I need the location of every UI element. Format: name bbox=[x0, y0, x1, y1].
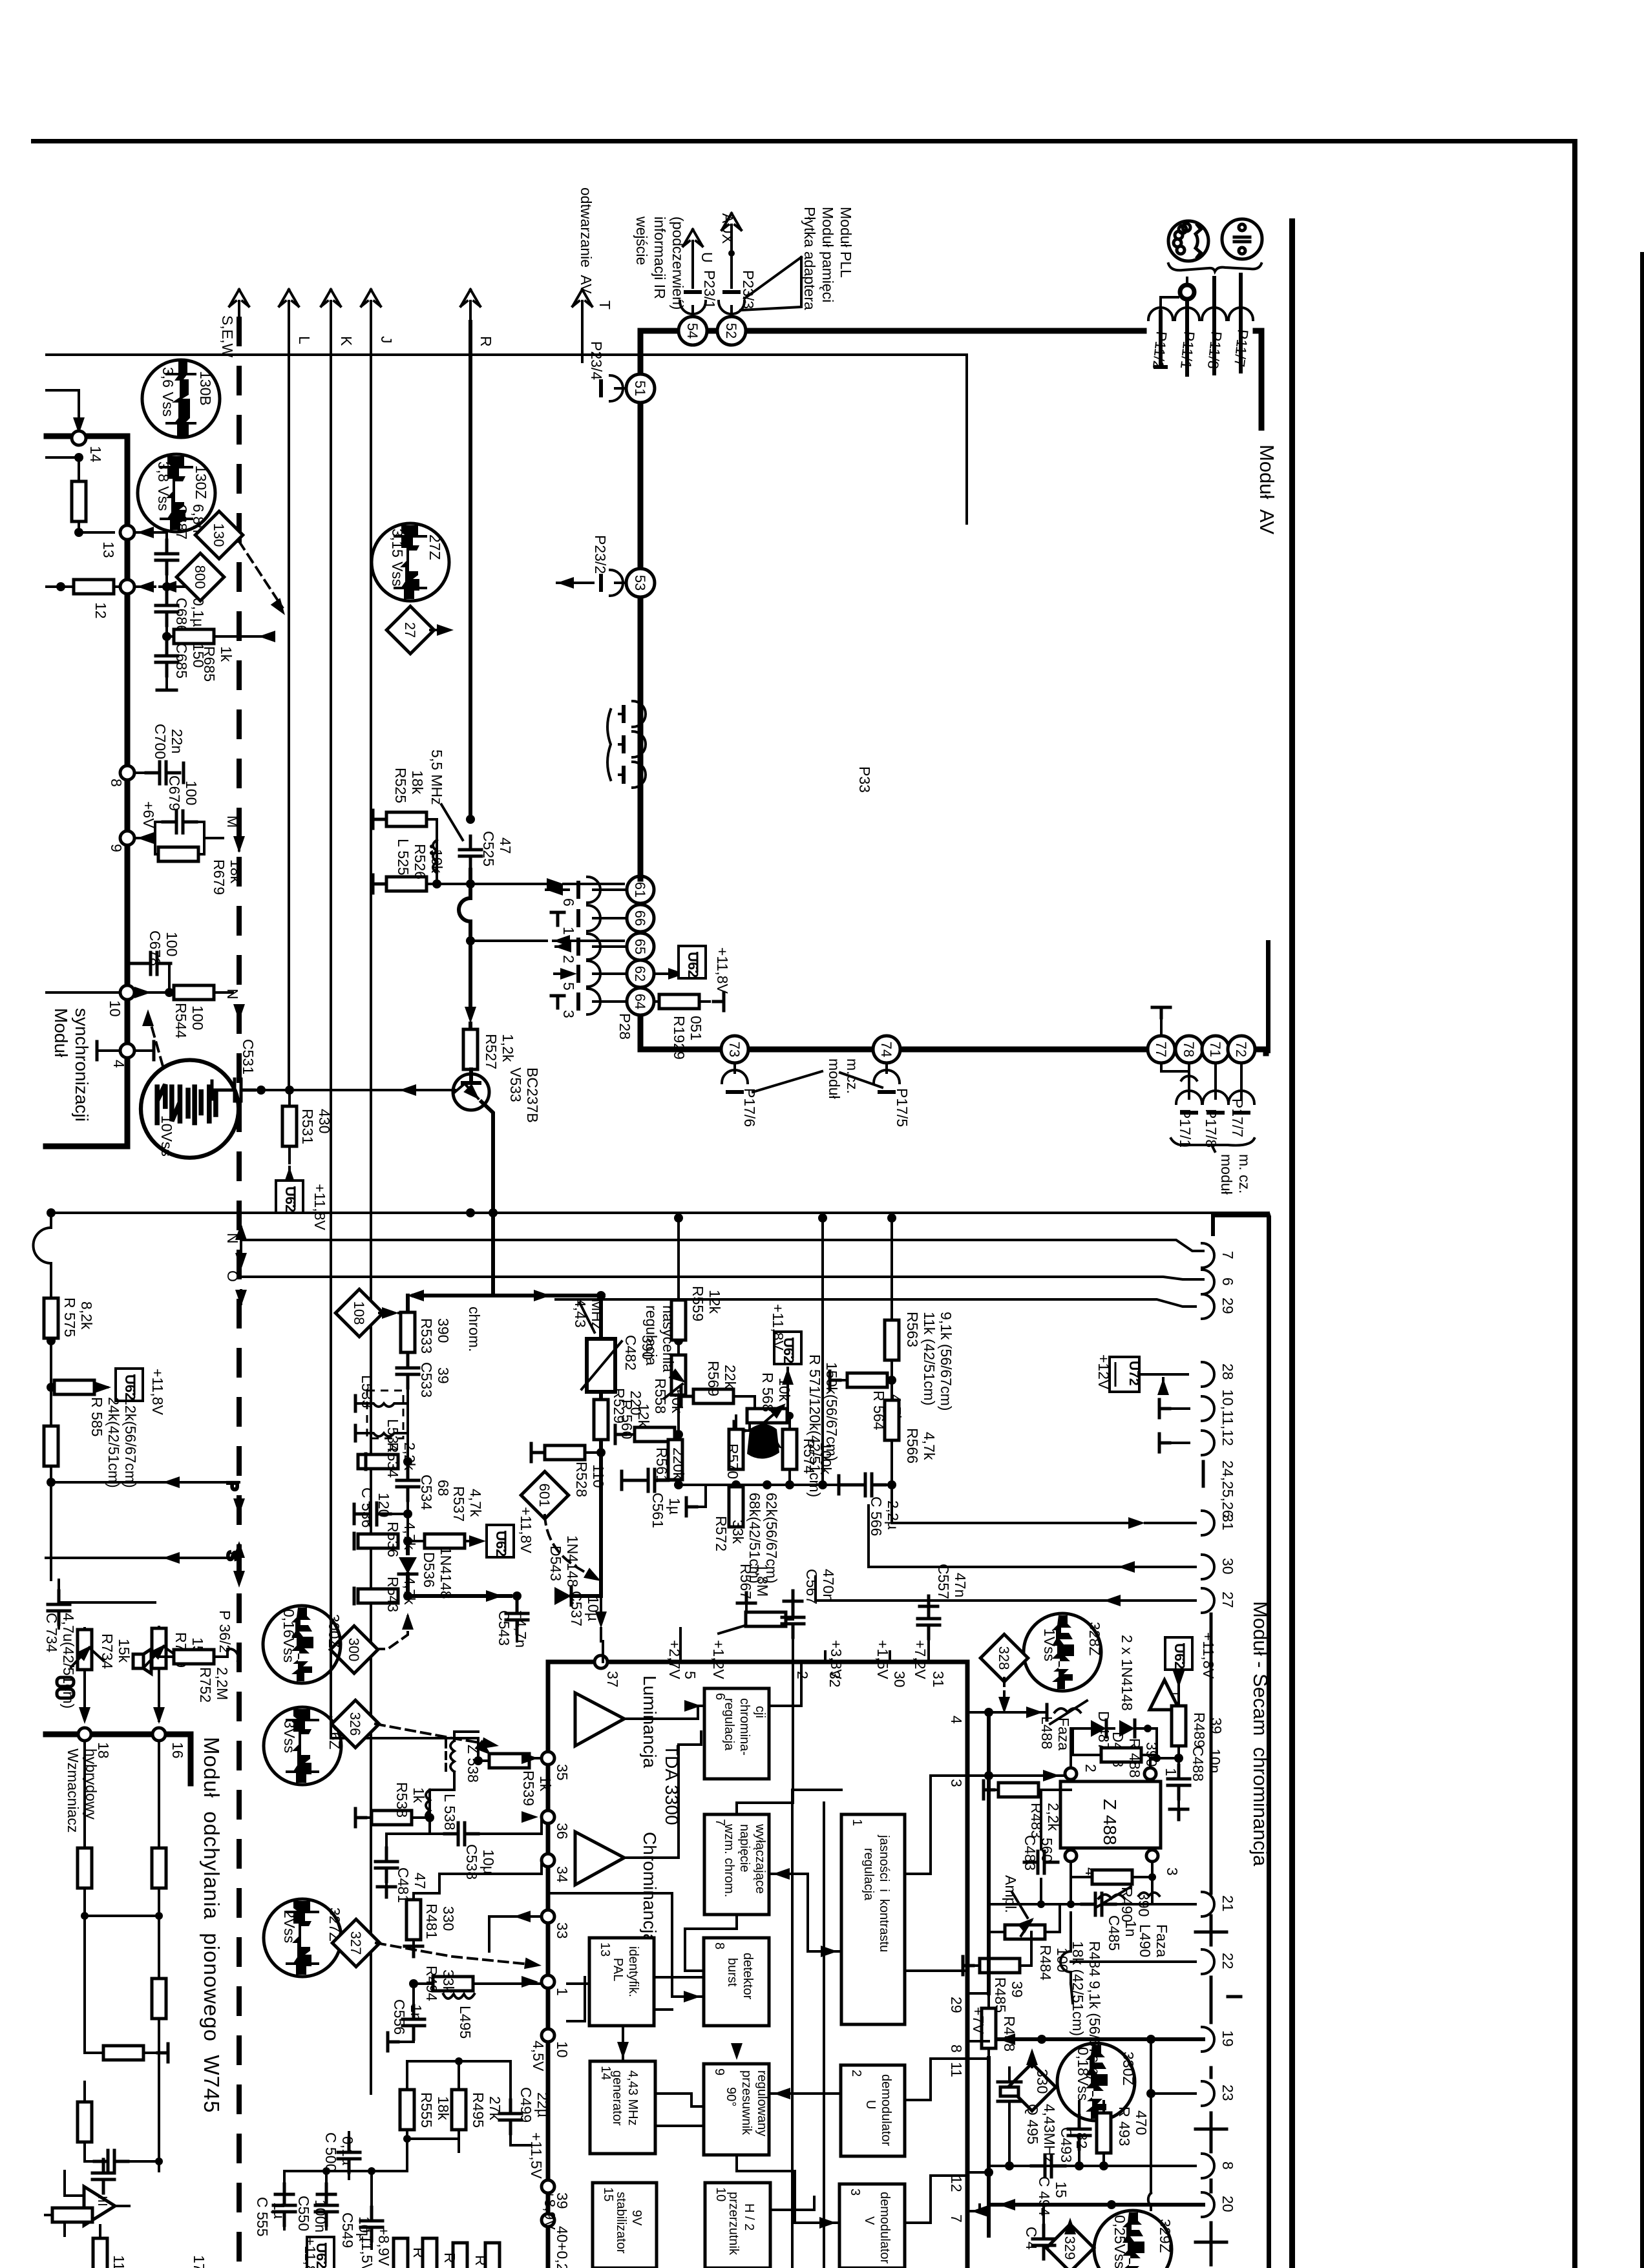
diamond 329 bbox=[1046, 2218, 1094, 2268]
secam edge dashes bbox=[1196, 1932, 1241, 2242]
svg-text:R543: R543 bbox=[385, 1577, 401, 1612]
resistor R488 bbox=[1073, 1728, 1174, 1778]
connector 27 bbox=[1202, 1588, 1236, 1613]
svg-text:Z 538: Z 538 bbox=[465, 1745, 481, 1783]
connector 21 bbox=[1202, 1892, 1236, 1916]
svg-text:L: L bbox=[296, 336, 313, 344]
capacitor C686 bbox=[156, 587, 207, 641]
node 52 bbox=[717, 317, 746, 345]
svg-text:12k: 12k bbox=[706, 1290, 723, 1314]
svg-text:przesuwnik: przesuwnik bbox=[739, 2070, 753, 2136]
svg-text:regulacja: regulacja bbox=[861, 1848, 876, 1901]
oscillogram 300Z bbox=[263, 1606, 342, 1683]
svg-text:C493: C493 bbox=[1058, 2127, 1075, 2163]
svg-text:430: 430 bbox=[316, 1109, 333, 1133]
svg-text:330Z: 330Z bbox=[1120, 2052, 1137, 2085]
svg-text:220k: 220k bbox=[670, 1447, 687, 1480]
svg-text:+1,2V: +1,2V bbox=[710, 1640, 727, 1679]
svg-text:0,1µ: 0,1µ bbox=[190, 598, 207, 627]
oscillogram 327Z bbox=[264, 1899, 343, 1977]
svg-text:27k: 27k bbox=[487, 2096, 503, 2121]
svg-text:identyfik.: identyfik. bbox=[626, 1946, 640, 1997]
svg-text:17: 17 bbox=[191, 2255, 207, 2268]
chip internal wires bbox=[548, 1641, 967, 2268]
wire P line bbox=[51, 1476, 245, 1515]
svg-text:T: T bbox=[596, 300, 613, 310]
svg-text:C549: C549 bbox=[339, 2212, 356, 2248]
junction wire to 66 bbox=[466, 935, 624, 947]
svg-text:Q 495: Q 495 bbox=[1024, 2104, 1041, 2145]
connector 8b bbox=[1202, 2154, 1236, 2178]
diamond 108 bbox=[335, 1289, 408, 1337]
svg-text:12: 12 bbox=[948, 2176, 965, 2192]
svg-text:27: 27 bbox=[1219, 1591, 1236, 1608]
capacitor C687 bbox=[156, 504, 207, 591]
arrow L bbox=[279, 289, 313, 1090]
connector 28 U72 bbox=[1095, 1354, 1236, 1395]
node 51 bbox=[626, 374, 655, 403]
svg-text:800: 800 bbox=[192, 565, 208, 589]
svg-text:15: 15 bbox=[1053, 2181, 1070, 2198]
svg-text:130Z: 130Z bbox=[193, 465, 209, 499]
svg-text:22n: 22n bbox=[169, 729, 185, 753]
wire thick down C482 bbox=[599, 1296, 603, 1596]
resistor R490 bbox=[1071, 1862, 1156, 1922]
svg-text:+7V: +7V bbox=[970, 2007, 987, 2034]
svg-text:77: 77 bbox=[1153, 1042, 1169, 1057]
oscillogram 329Z bbox=[1094, 2210, 1174, 2268]
svg-text:+7,2V: +7,2V bbox=[912, 1640, 929, 1679]
diode D488 bbox=[1110, 1720, 1157, 1767]
node 72 bbox=[1228, 1036, 1255, 1063]
svg-text:16: 16 bbox=[169, 1742, 186, 1759]
svg-text:C: C bbox=[359, 1487, 375, 1498]
svg-text:jasności i kontrastu: jasności i kontrastu bbox=[877, 1834, 891, 1952]
svg-text:7: 7 bbox=[1219, 1251, 1236, 1259]
svg-text:R: R bbox=[478, 336, 494, 347]
svg-text:R569: R569 bbox=[705, 1361, 722, 1396]
node 54 bbox=[679, 317, 707, 345]
svg-text:R572: R572 bbox=[713, 1516, 730, 1551]
svg-text:0,25Vss: 0,25Vss bbox=[1112, 2215, 1128, 2268]
node 4 bbox=[97, 1042, 154, 1068]
chip pin29 wire bbox=[967, 1992, 989, 1995]
svg-text:110: 110 bbox=[590, 1464, 607, 1488]
capacitor C550 bbox=[295, 2184, 337, 2232]
svg-text:20: 20 bbox=[1219, 2196, 1236, 2212]
svg-text:+1,5V: +1,5V bbox=[874, 1640, 891, 1679]
svg-text:1Vss: 1Vss bbox=[1041, 1628, 1058, 1661]
node 62 bbox=[627, 960, 654, 987]
svg-text:N: N bbox=[224, 1233, 241, 1244]
svg-text:330: 330 bbox=[1034, 2069, 1051, 2094]
svg-text:R526: R526 bbox=[412, 844, 428, 879]
svg-text:74: 74 bbox=[878, 1042, 894, 1057]
svg-text:47: 47 bbox=[412, 1873, 428, 1889]
capacitor C567 bbox=[782, 1569, 837, 1652]
svg-text:68k(42/51cm): 68k(42/51cm) bbox=[746, 1493, 763, 1584]
svg-text:P17/6: P17/6 bbox=[741, 1088, 758, 1127]
svg-text:wzm. chrom.: wzm. chrom. bbox=[722, 1823, 736, 1897]
svg-text:C 4: C 4 bbox=[1023, 2227, 1040, 2250]
svg-text:R495: R495 bbox=[470, 2092, 487, 2128]
svg-text:3,6 Vss: 3,6 Vss bbox=[160, 367, 176, 417]
svg-text:3Vss: 3Vss bbox=[281, 1720, 298, 1753]
wire hop 22 bbox=[1060, 1913, 1196, 2003]
svg-text:R 560: R 560 bbox=[618, 1400, 635, 1439]
svg-text:+11,5V: +11,5V bbox=[528, 2132, 545, 2179]
svg-text:51: 51 bbox=[632, 381, 648, 396]
svg-text:R528: R528 bbox=[573, 1462, 590, 1497]
resistor R555 bbox=[400, 2079, 452, 2139]
svg-text:AUX: AUX bbox=[719, 213, 736, 244]
svg-text:R531: R531 bbox=[299, 1109, 316, 1144]
svg-text:D536: D536 bbox=[421, 1552, 437, 1588]
svg-text:U: U bbox=[863, 2100, 878, 2109]
svg-text:R527: R527 bbox=[483, 1034, 500, 1069]
svg-text:C543: C543 bbox=[496, 1610, 512, 1646]
svg-text:C499: C499 bbox=[518, 2087, 534, 2123]
svg-text:regulacja: regulacja bbox=[643, 1305, 660, 1366]
svg-text:1: 1 bbox=[850, 1819, 864, 1826]
resistor R752 bbox=[159, 1650, 231, 1703]
svg-text:5: 5 bbox=[560, 982, 577, 991]
svg-text:L 538: L 538 bbox=[441, 1794, 458, 1831]
arrow M on divider bbox=[224, 815, 245, 853]
svg-text:R 585: R 585 bbox=[89, 1397, 105, 1436]
resistor ladder3 bbox=[152, 1979, 166, 2019]
coil L525 bbox=[395, 839, 437, 876]
svg-text:12k(56/67cm): 12k(56/67cm) bbox=[122, 1397, 139, 1488]
svg-text:R538: R538 bbox=[394, 1782, 410, 1818]
svg-text:R: R bbox=[441, 2252, 458, 2263]
svg-text:+11,8V: +11,8V bbox=[1200, 1632, 1217, 1679]
svg-text:2,2k: 2,2k bbox=[401, 1442, 418, 1471]
svg-text:U72: U72 bbox=[1126, 1361, 1141, 1386]
chip pin 8 11 wires bbox=[967, 2041, 989, 2059]
connector 30 bbox=[1202, 1555, 1236, 1579]
wire to 61 bbox=[470, 878, 624, 890]
crystal Q495 bbox=[998, 2068, 1058, 2166]
wire 30 line bbox=[869, 1506, 1196, 1573]
svg-text:R484: R484 bbox=[1037, 1945, 1054, 1980]
DIN socket 5pin bbox=[1168, 221, 1208, 261]
U62 box cluster bbox=[770, 1304, 801, 1416]
svg-text:C700: C700 bbox=[152, 724, 169, 759]
svg-text:R539: R539 bbox=[520, 1770, 537, 1806]
wire 31 line bbox=[892, 1485, 1196, 1529]
potentiometer R729 bbox=[145, 1627, 206, 1721]
node 74 bbox=[873, 1036, 900, 1063]
svg-text:5: 5 bbox=[682, 1671, 699, 1679]
svg-text:R498: R498 bbox=[1001, 2016, 1018, 2052]
svg-text:10n: 10n bbox=[1207, 1748, 1223, 1773]
svg-text:30: 30 bbox=[1219, 1558, 1236, 1575]
node 65 bbox=[627, 933, 654, 960]
svg-text:L533: L533 bbox=[359, 1375, 375, 1408]
svg-text:470n: 470n bbox=[820, 1569, 837, 1602]
svg-text:66: 66 bbox=[632, 910, 648, 926]
svg-text:4,7k: 4,7k bbox=[401, 1577, 418, 1605]
diamond 326 bbox=[332, 1700, 500, 1752]
block 1 regulacja jasnosci bbox=[841, 1814, 905, 2024]
svg-text:Chrominancja: Chrominancja bbox=[640, 1832, 660, 1944]
svg-text:31: 31 bbox=[1219, 1514, 1236, 1531]
svg-text:P33: P33 bbox=[856, 766, 873, 793]
svg-text:73: 73 bbox=[726, 1042, 743, 1057]
opamp III bbox=[65, 2171, 129, 2236]
svg-text:4,5V: 4,5V bbox=[530, 2041, 547, 2072]
connector 10,11,12 bbox=[1159, 1389, 1236, 1446]
svg-text:33k: 33k bbox=[730, 1520, 746, 1544]
svg-text:10Vss: 10Vss bbox=[158, 1115, 175, 1157]
svg-text:+11,8V: +11,8V bbox=[714, 947, 731, 994]
module boundary stub bbox=[1266, 940, 1270, 1053]
svg-text:C537: C537 bbox=[568, 1591, 585, 1626]
resistor R567 bbox=[737, 1564, 793, 1626]
svg-text:K: K bbox=[338, 336, 355, 346]
resistor ladder5 bbox=[78, 2102, 92, 2142]
svg-text:+8,9V: +8,9V bbox=[542, 2190, 558, 2230]
amplifier triangle chrominancja bbox=[575, 1832, 624, 1885]
block 7 wzm chrom bbox=[704, 1814, 769, 1915]
svg-text:21: 21 bbox=[1219, 1895, 1236, 1912]
svg-text:10: 10 bbox=[107, 1000, 123, 1017]
plug P23/2 bbox=[557, 535, 626, 596]
page frame top bbox=[31, 139, 1577, 143]
svg-text:10,11,12: 10,11,12 bbox=[1219, 1389, 1236, 1446]
svg-text:64: 64 bbox=[632, 994, 648, 1009]
plug P36/2 bbox=[216, 1610, 238, 1661]
svg-text:8,2k: 8,2k bbox=[78, 1301, 95, 1330]
svg-text:Moduł - Secam chrominancja: Moduł - Secam chrominancja bbox=[1249, 1601, 1272, 1867]
resistor R536 bbox=[354, 1514, 418, 1557]
connector 7 bbox=[1202, 1243, 1236, 1268]
wire pin4 row bbox=[989, 1862, 1196, 1908]
svg-text:62: 62 bbox=[632, 966, 648, 982]
svg-text:1: 1 bbox=[560, 927, 577, 935]
svg-text:22: 22 bbox=[1219, 1953, 1236, 1969]
svg-text:V: V bbox=[862, 2216, 876, 2225]
svg-text:generator: generator bbox=[610, 2070, 624, 2126]
svg-text:S,E,W: S,E,W bbox=[219, 315, 236, 357]
oscillogram 130B bbox=[142, 360, 220, 437]
svg-text:10k: 10k bbox=[428, 849, 445, 874]
diamond 130 bbox=[195, 511, 243, 559]
capacitor C492 bbox=[1023, 2205, 1055, 2259]
resistor R563 bbox=[885, 1213, 954, 1411]
capacitor C536 bbox=[354, 1487, 408, 1528]
plugs P17/1 P17/8 P17/7 bbox=[1161, 1063, 1254, 1195]
svg-text:C550: C550 bbox=[295, 2196, 312, 2231]
oscillogram 326Z bbox=[264, 1707, 343, 1785]
capacitor C499 bbox=[500, 2087, 551, 2145]
arrow N on divider bbox=[224, 989, 245, 1021]
diamond 27 bbox=[386, 606, 454, 654]
svg-text:39: 39 bbox=[1009, 1981, 1026, 1998]
svg-text:300: 300 bbox=[346, 1638, 362, 1662]
capacitor C734 bbox=[43, 1580, 155, 1708]
node 77 bbox=[1148, 1036, 1175, 1063]
svg-text:100n: 100n bbox=[312, 2200, 329, 2232]
svg-text:23: 23 bbox=[1219, 2084, 1236, 2101]
svg-text:24k(42/51cm): 24k(42/51cm) bbox=[105, 1397, 122, 1488]
svg-text:3: 3 bbox=[1164, 1867, 1181, 1876]
coil L488 trimmer bbox=[1038, 1701, 1087, 1750]
svg-text:9: 9 bbox=[712, 2068, 726, 2075]
svg-text:C678: C678 bbox=[147, 930, 163, 966]
svg-text:33: 33 bbox=[554, 1922, 571, 1939]
coil Z538 bbox=[446, 1732, 483, 1790]
svg-text:P17/1: P17/1 bbox=[1177, 1109, 1194, 1148]
bottom resistors row bbox=[394, 2238, 500, 2268]
capacitor C483 bbox=[1022, 1790, 1058, 1904]
oscillogram 10Vss bbox=[141, 1060, 238, 1158]
svg-text:9,1k (56/67cm): 9,1k (56/67cm) bbox=[938, 1312, 954, 1411]
svg-text:2,2k: 2,2k bbox=[1045, 1803, 1062, 1831]
label modul m.cz. pointer bbox=[753, 1071, 882, 1092]
svg-text:Z 488: Z 488 bbox=[1100, 1799, 1120, 1845]
resistor R495 bbox=[452, 2079, 503, 2152]
svg-text:4: 4 bbox=[111, 1060, 127, 1068]
capacitor C538 bbox=[445, 1811, 542, 1880]
svg-text:3: 3 bbox=[560, 1010, 577, 1018]
dashed pointer 10Vss bbox=[149, 1018, 163, 1066]
svg-text:V533: V533 bbox=[507, 1067, 524, 1102]
capacitor C481 bbox=[375, 1834, 446, 1903]
module boundary secam right bbox=[1267, 1215, 1271, 2268]
svg-text:+11,8V: +11,8V bbox=[311, 1184, 328, 1230]
resistor R485 bbox=[963, 1932, 1031, 2013]
resistor R559 bbox=[671, 1286, 723, 1340]
resistor R534 bbox=[358, 1433, 418, 1478]
svg-text:329Z: 329Z bbox=[1157, 2219, 1174, 2252]
svg-text:72: 72 bbox=[1233, 1042, 1249, 1057]
capacitor C543 bbox=[496, 1596, 529, 1648]
block 3 V demodulator bbox=[839, 2184, 905, 2268]
svg-text:330: 330 bbox=[440, 1906, 457, 1931]
capacitor C557 bbox=[918, 1564, 969, 1652]
svg-text:C 555: C 555 bbox=[254, 2197, 271, 2236]
svg-text:130B: 130B bbox=[197, 371, 214, 406]
node 71 bbox=[1202, 1036, 1229, 1063]
svg-text:8: 8 bbox=[712, 1942, 726, 1949]
resistor R494 L495 bbox=[409, 1911, 542, 2039]
resistor R570 bbox=[724, 1416, 743, 1479]
resistor R575 bbox=[44, 1297, 95, 1338]
svg-text:C483: C483 bbox=[1022, 1835, 1038, 1871]
svg-text:29: 29 bbox=[1219, 1297, 1236, 1314]
svg-text:39: 39 bbox=[435, 1367, 452, 1384]
arrows internal bbox=[684, 1700, 701, 1712]
svg-text:1k: 1k bbox=[537, 1776, 554, 1792]
svg-text:6: 6 bbox=[560, 898, 577, 907]
potentiometer R484 bbox=[989, 1904, 1071, 1980]
corner bracket AV bbox=[1256, 331, 1261, 428]
svg-text:2: 2 bbox=[1082, 1764, 1099, 1772]
page frame right bbox=[1572, 139, 1577, 2268]
svg-text:Luminancja: Luminancja bbox=[640, 1675, 660, 1769]
svg-text:C482: C482 bbox=[622, 1335, 639, 1370]
ladder wires bbox=[81, 1741, 163, 2171]
capacitor C566 bbox=[839, 1474, 901, 1536]
block 14 generator bbox=[590, 2061, 655, 2154]
svg-text:6: 6 bbox=[1219, 1277, 1236, 1286]
svg-text:326: 326 bbox=[347, 1712, 363, 1736]
trimmer C482 bbox=[572, 1299, 656, 1392]
capacitor C531 bbox=[212, 1039, 1040, 2099]
capacitor C500 bbox=[322, 2132, 360, 2179]
svg-text:18k: 18k bbox=[435, 2096, 452, 2121]
U62 bottom bbox=[302, 2237, 334, 2268]
svg-text:24,25,26: 24,25,26 bbox=[1219, 1460, 1236, 1518]
svg-text:2: 2 bbox=[560, 955, 577, 963]
svg-text:C685: C685 bbox=[173, 643, 190, 678]
svg-text:C556: C556 bbox=[391, 1999, 408, 2035]
wire S line bbox=[46, 1541, 245, 1588]
wire P33 to border bbox=[638, 803, 644, 879]
svg-text:PAL: PAL bbox=[611, 1958, 625, 1981]
capacitor C678 bbox=[128, 930, 180, 992]
resistor R498 bbox=[970, 1993, 1018, 2058]
chip pin12 wire bbox=[967, 2171, 989, 2174]
wire 29 line bbox=[556, 1299, 1196, 1307]
node 64 bbox=[627, 988, 654, 1015]
node 53 bbox=[626, 569, 655, 597]
svg-text:R481: R481 bbox=[423, 1904, 440, 1939]
svg-text:2 x 1N4148: 2 x 1N4148 bbox=[1119, 1635, 1135, 1711]
U62 box R531 bbox=[276, 1181, 328, 1230]
svg-text:1: 1 bbox=[554, 1988, 571, 1996]
svg-text:+11,8V: +11,8V bbox=[518, 1507, 534, 1553]
svg-text:+11,5V: +11,5V bbox=[359, 2227, 375, 2268]
caps pair bbox=[85, 2142, 163, 2193]
svg-text:1N4148: 1N4148 bbox=[437, 1547, 454, 1599]
bus 19 bbox=[997, 2033, 1203, 2045]
svg-text:J: J bbox=[378, 336, 395, 344]
svg-text:R 493: R 493 bbox=[1116, 2106, 1133, 2146]
svg-text:R483: R483 bbox=[1028, 1803, 1045, 1838]
DIN stem bbox=[1181, 286, 1194, 299]
plug P17/6 bbox=[722, 1063, 758, 1127]
wire hop bbox=[459, 870, 470, 936]
svg-text:2: 2 bbox=[849, 2070, 863, 2077]
svg-text:329: 329 bbox=[1062, 2236, 1078, 2260]
long wire Y549 bbox=[47, 355, 967, 523]
label Ampl bbox=[1002, 1875, 1027, 1918]
svg-text:10µ: 10µ bbox=[585, 1596, 602, 1621]
dashed module divider bbox=[237, 317, 242, 2268]
secam top corner bbox=[1213, 1215, 1269, 1234]
svg-text:78: 78 bbox=[1181, 1042, 1197, 1057]
svg-text:1: 1 bbox=[1163, 1768, 1179, 1776]
svg-text:300Z: 300Z bbox=[326, 1614, 342, 1648]
svg-text:C 566: C 566 bbox=[868, 1496, 885, 1536]
capacitor C555 bbox=[254, 2184, 295, 2236]
svg-text:P: P bbox=[224, 1481, 241, 1491]
svg-text:R544: R544 bbox=[173, 1003, 189, 1038]
svg-text:54: 54 bbox=[684, 323, 701, 339]
svg-text:BC237B: BC237B bbox=[524, 1067, 541, 1123]
modul synchronizacji border bbox=[46, 436, 127, 1146]
svg-text:R 571/120k(42/51cm): R 571/120k(42/51cm) bbox=[806, 1354, 823, 1497]
node 66 bbox=[627, 905, 654, 932]
bus wire Y1877 bbox=[48, 1212, 1269, 1214]
diamond 601 bbox=[521, 1471, 604, 1586]
svg-text:R 488: R 488 bbox=[1126, 1738, 1143, 1778]
svg-text:P17/8: P17/8 bbox=[1203, 1109, 1219, 1148]
svg-text:10µ: 10µ bbox=[480, 1849, 497, 1874]
